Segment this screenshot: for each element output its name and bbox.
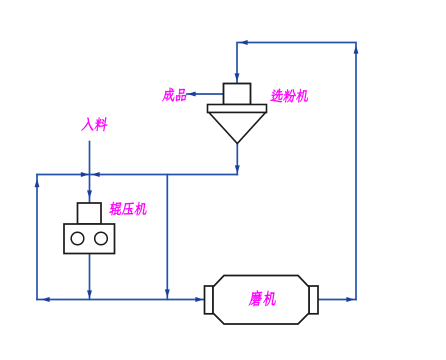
- mill right journal: [309, 286, 318, 314]
- arrow right before bottom-right corner: [347, 298, 354, 302]
- wire classifier underflow: [236, 144, 238, 175]
- arrow down into classifier: [235, 74, 239, 81]
- wire branch to mill: [166, 175, 168, 300]
- wire middle horizontal line: [37, 174, 237, 176]
- roller press left roll: [71, 232, 84, 245]
- arrow left on top line: [241, 41, 248, 45]
- label classifier 选粉机: [270, 89, 309, 103]
- mill body: [213, 276, 309, 325]
- mill left journal: [205, 286, 214, 314]
- arrow left to finished product: [189, 92, 196, 96]
- label roller press 辊压机: [109, 202, 148, 216]
- classifier brim: [208, 105, 267, 113]
- classifier cone: [209, 113, 266, 144]
- label mill 磨机: [249, 291, 277, 307]
- arrow down at underflow junction: [235, 166, 239, 173]
- arrow up on left recycle: [35, 180, 39, 187]
- arrow left at bottom-left corner: [43, 298, 50, 302]
- roller press body: [64, 224, 115, 254]
- wire finished product line: [187, 93, 224, 95]
- roller press inlet box: [78, 203, 102, 224]
- wire mill outlet line: [318, 299, 356, 301]
- wire fresh feed vertical: [89, 142, 91, 204]
- classifier top box: [224, 84, 251, 105]
- arrow down at branch bottom: [165, 290, 169, 297]
- arrow up on right return line: [354, 47, 358, 54]
- arrow right into mill inlet: [196, 298, 203, 302]
- wire bottom collection line: [37, 299, 205, 301]
- arrow right into feed junction: [81, 173, 88, 177]
- arrow down at discharge junction: [88, 291, 92, 298]
- roller press right roll: [95, 232, 108, 245]
- wire roller press discharge: [89, 254, 91, 300]
- wire top return line (mill outlet up and over to classifier inlet): [237, 43, 356, 300]
- label feed 入料: [81, 117, 108, 131]
- wire left recycle vertical: [36, 175, 38, 300]
- arrow down into roller press: [88, 191, 92, 198]
- label finished product 成品: [162, 88, 187, 102]
- arrow left into feed junction: [93, 173, 100, 177]
